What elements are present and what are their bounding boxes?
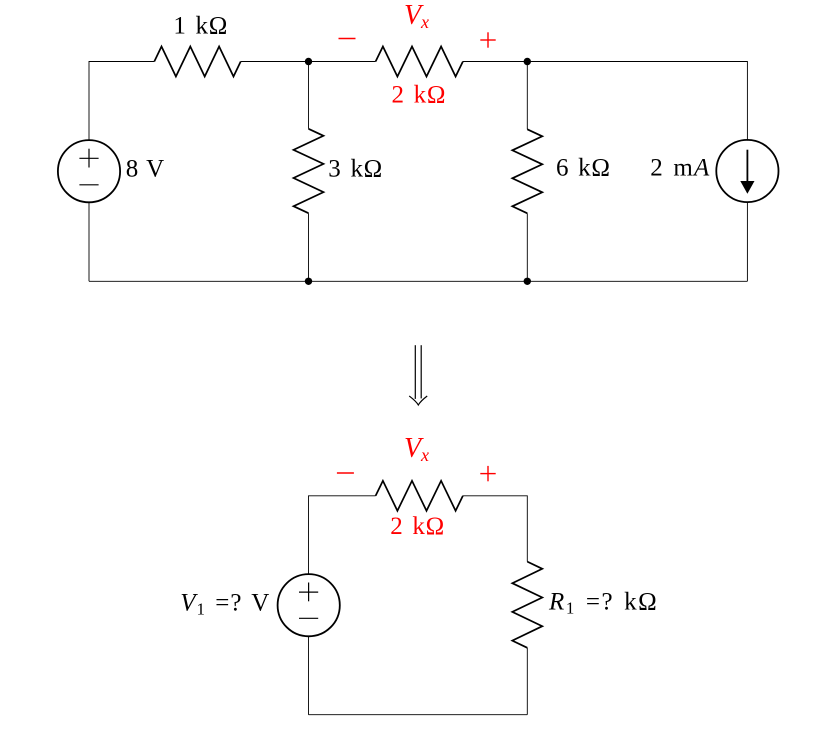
polarity plus (top, red) [480, 32, 495, 47]
double downarrow shaft lines [414, 345, 416, 399]
svg-text:3 kΩ: 3 kΩ [328, 156, 383, 183]
svg-text:8 V: 8 V [126, 156, 164, 183]
double downarrow head [409, 396, 427, 405]
resistor R=3k zigzag [294, 129, 324, 213]
resistor R=6k zigzag [512, 129, 542, 213]
node A dot [305, 58, 312, 65]
voltage source minus sign [79, 184, 98, 186]
wire: R 2k right to node B to top-right corner down to current source [463, 62, 748, 141]
voltage source V=8V circle [58, 140, 120, 202]
wire: node A stub to R 3k top [308, 62, 310, 129]
svg-text:2 mA: 2 mA [650, 154, 710, 181]
resistor R=2k zigzag (bottom) [376, 481, 463, 511]
wire right: R1 bottom to bottom rail [526, 648, 528, 715]
node B' dot (bottom rail) [524, 278, 531, 285]
svg-text:1 kΩ: 1 kΩ [173, 12, 228, 39]
V1 source plus sign [299, 583, 318, 619]
svg-text:x: x [420, 12, 429, 32]
resistor R=1k zigzag [154, 47, 240, 77]
polarity minus (bottom, red) [337, 472, 354, 474]
svg-text:x: x [420, 445, 429, 465]
wire top-left: source top to R 1k [89, 62, 154, 141]
voltage source V1 circle [278, 574, 340, 636]
polarity plus (bottom, red) [480, 466, 495, 481]
node A' dot (bottom rail) [305, 278, 312, 285]
polarity minus (top, red) [339, 38, 356, 40]
wire bottom rail [309, 714, 528, 716]
wire right: current source bottom to bottom rail [746, 202, 748, 281]
wire left: source bottom to bottom rail [308, 636, 310, 715]
resistor R1 zigzag [512, 562, 542, 648]
current source arrow [740, 150, 754, 194]
svg-text:R1 =? kΩ: R1 =? kΩ [548, 589, 658, 618]
wire: R 2k right to top-right corner down to R1 [463, 496, 527, 562]
svg-text:2 kΩ: 2 kΩ [390, 513, 445, 540]
wire: R 6k bottom to bottom rail [526, 213, 528, 281]
wire bottom rail [89, 280, 747, 282]
wire: R 3k bottom to bottom rail [308, 213, 310, 281]
svg-text:V1 =? V: V1 =? V [180, 589, 270, 618]
current source I=2mA circle [716, 140, 778, 202]
resistor R=2k zigzag (top) [376, 47, 463, 77]
svg-text:2 kΩ: 2 kΩ [391, 82, 446, 109]
V1 source minus sign [299, 617, 318, 619]
wire top-left: source top to R 2k [309, 496, 376, 574]
svg-text:6 kΩ: 6 kΩ [556, 155, 611, 182]
wire left: source bottom to bottom rail [88, 202, 90, 281]
wire: R 1k to node A and on to R 2k [241, 61, 376, 63]
wire: node B stub to R 6k top [526, 62, 528, 130]
voltage source plus sign [79, 149, 98, 185]
node B dot [524, 58, 531, 65]
